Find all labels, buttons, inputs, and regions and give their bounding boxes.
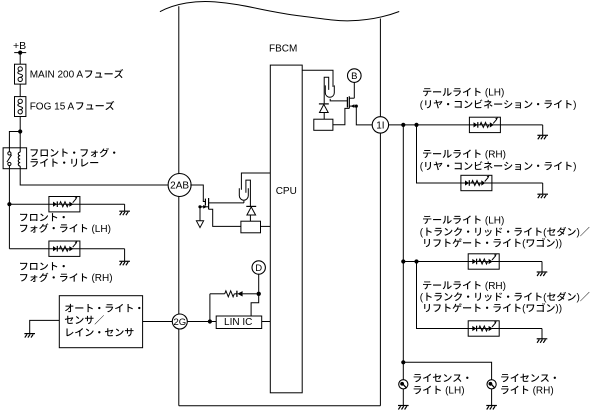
junction tail light feed A: [401, 123, 405, 127]
lamp tail light LH trunk/liftgate: [468, 254, 499, 269]
wire to tail LH trunk: [403, 261, 468, 263]
wire relay switch to fog lights: [8, 169, 10, 249]
label front fog light LH: [20, 214, 27, 221]
wire tail RH trunk to ground: [499, 328, 542, 330]
wire sense element E2 to Q2 gate: [330, 99, 347, 101]
wire fog RH to ground: [80, 248, 125, 250]
box driver A1: [241, 221, 261, 233]
wire driver A1 to Q1: [209, 209, 241, 226]
ground license light RH: [486, 405, 497, 407]
ground fog light LH: [119, 210, 130, 212]
svg-text:LIN IC: LIN IC: [224, 317, 252, 328]
wire connector 1I to tail lights: [389, 124, 470, 126]
svg-text:CPU: CPU: [276, 186, 297, 197]
svg-text:(: (: [420, 100, 424, 111]
label front fog light RH: [20, 263, 27, 270]
label tail light LH: [423, 88, 431, 96]
svg-text:2G: 2G: [173, 317, 186, 328]
lamp license light LH: [399, 380, 408, 389]
ground license light LH: [398, 405, 409, 407]
fuse FOG 15A: [15, 97, 26, 117]
node B (battery): [353, 82, 355, 98]
wire license LH to ground: [402, 389, 404, 406]
label auto light sensor / rain sensor: [65, 304, 73, 312]
IC LIN IC U2: [216, 316, 262, 329]
svg-text:(: (: [420, 227, 424, 238]
wire CPU to sense element E2: [302, 70, 333, 87]
wire LIN IC to CPU: [262, 321, 271, 323]
ground sensor: [24, 333, 35, 335]
junction 2G branch: [208, 319, 212, 323]
svg-text:+B: +B: [13, 40, 26, 52]
junction license light feed: [401, 360, 405, 364]
wire +B to MAIN fuse: [19, 53, 21, 65]
svg-text:(: (: [522, 239, 526, 250]
svg-text:2AB: 2AB: [170, 181, 189, 192]
diode D3: [234, 293, 236, 295]
wire feed B down to tail RH: [417, 125, 461, 183]
svg-text:(RH): (RH): [91, 273, 112, 284]
FBCM module boundary: [160, 2, 399, 21]
svg-text:(: (: [420, 292, 424, 303]
wire license RH to ground: [491, 389, 493, 406]
svg-text:): ): [573, 162, 576, 173]
sense element E2 (cup): [325, 85, 334, 97]
relay front fog light relay K1: [3, 148, 27, 169]
svg-text:1I: 1I: [376, 120, 384, 131]
label tail light RH: [423, 150, 431, 158]
wire driver A1 to CPU: [261, 225, 271, 227]
label front fog light relay: [31, 149, 38, 156]
junction tail light feed B: [414, 123, 418, 127]
wire to front fog light LH: [9, 203, 49, 205]
wire relay coil to connector 2AB: [20, 169, 167, 185]
svg-text:(LH): (LH): [91, 224, 110, 235]
box driver A2: [314, 119, 333, 130]
resistor R1: [210, 293, 225, 295]
wire sensor to ground: [30, 320, 60, 333]
svg-text:(RH): (RH): [533, 386, 554, 397]
wire driver A2 to Q2: [333, 108, 349, 124]
lamp tail light RH trunk/liftgate: [468, 321, 499, 336]
lamp license light RH: [487, 380, 496, 389]
svg-text:B: B: [351, 71, 357, 82]
svg-text:(RH): (RH): [485, 150, 506, 161]
wire 2AB to MOSFET Q1 gate: [190, 185, 205, 202]
svg-text:D: D: [255, 263, 262, 274]
node D: [252, 261, 265, 274]
svg-text:(: (: [522, 304, 526, 315]
wire tail LH trunk to ground: [499, 261, 542, 263]
wire sensor to connector 2G: [143, 321, 172, 323]
ground tail LH trunk: [537, 271, 548, 273]
lamp tail light LH rear combination: [469, 117, 500, 132]
CPU U1: [270, 65, 302, 393]
svg-text:): ): [576, 292, 579, 303]
svg-text:FBCM: FBCM: [269, 43, 297, 54]
label tail light RH trunk: [423, 281, 431, 289]
wire trunk feed B down to tail RH trunk: [417, 262, 469, 329]
wire to license light RH: [403, 362, 491, 380]
ground tail RH trunk: [537, 338, 548, 340]
box auto light sensor / rain sensor: [59, 296, 142, 348]
wire Q2 source to connector 1I: [356, 106, 372, 125]
lamp front fog light LH: [49, 197, 80, 212]
sense element E1 (cup): [239, 188, 248, 200]
junction node D / LIN: [257, 292, 261, 296]
junction fuse/relay branch: [18, 129, 22, 133]
fuse MAIN 200A: [15, 64, 26, 84]
arrow to other circuit (Q1 source): [196, 221, 203, 228]
junction trunk feed: [401, 259, 405, 263]
wire fog LH to ground: [80, 203, 125, 205]
wire feed A down: [402, 125, 404, 380]
svg-text:(RH): (RH): [485, 281, 506, 292]
ground tail light LH: [537, 134, 548, 136]
svg-text:(LH): (LH): [485, 88, 504, 99]
wire tail LH to ground: [500, 124, 542, 126]
wire 2G to LIN IC: [187, 321, 216, 323]
wire branch to relay switch: [9, 132, 20, 148]
diode D1: [246, 205, 256, 207]
lamp tail light RH rear combination: [461, 175, 492, 190]
transistor Q2 (tail light driver MOSFET): [346, 97, 348, 108]
svg-text:MAIN 200 A: MAIN 200 A: [30, 70, 84, 81]
wire Q1 drain to sense element: [209, 202, 244, 204]
label tail light LH trunk: [423, 216, 431, 224]
svg-text:(: (: [420, 162, 424, 173]
svg-text:(: (: [543, 292, 547, 303]
diode D2: [319, 103, 329, 105]
junction fog light branch: [7, 202, 11, 206]
wire FOG fuse to relay: [19, 117, 21, 148]
label license light LH: [414, 374, 422, 382]
ground fog light RH: [119, 260, 130, 262]
wire tail RH to ground: [492, 182, 543, 184]
svg-text:): ): [576, 227, 579, 238]
svg-text:(: (: [543, 227, 547, 238]
label license light RH: [501, 374, 509, 382]
connector 2AB: [168, 174, 191, 197]
connector 2G: [172, 314, 187, 329]
svg-text:FOG 15 A: FOG 15 A: [30, 102, 75, 113]
svg-text:(LH): (LH): [445, 386, 464, 397]
connector 1I: [372, 117, 388, 133]
svg-text:)): )): [555, 304, 562, 315]
junction trunk feed B: [414, 259, 418, 263]
svg-text:(LH): (LH): [485, 215, 504, 226]
transistor Q1 (p-ch MOSFET fog driver): [204, 199, 206, 206]
wire CPU to sense element E1: [241, 173, 270, 190]
svg-text:): ): [573, 100, 576, 111]
wire to front fog light RH: [9, 248, 49, 250]
svg-text:)): )): [555, 239, 562, 250]
lamp front fog light RH: [49, 241, 80, 256]
wire MAIN fuse to FOG fuse: [19, 84, 21, 97]
wire junction to LIN IC: [251, 296, 259, 316]
ground tail light RH: [537, 193, 548, 195]
